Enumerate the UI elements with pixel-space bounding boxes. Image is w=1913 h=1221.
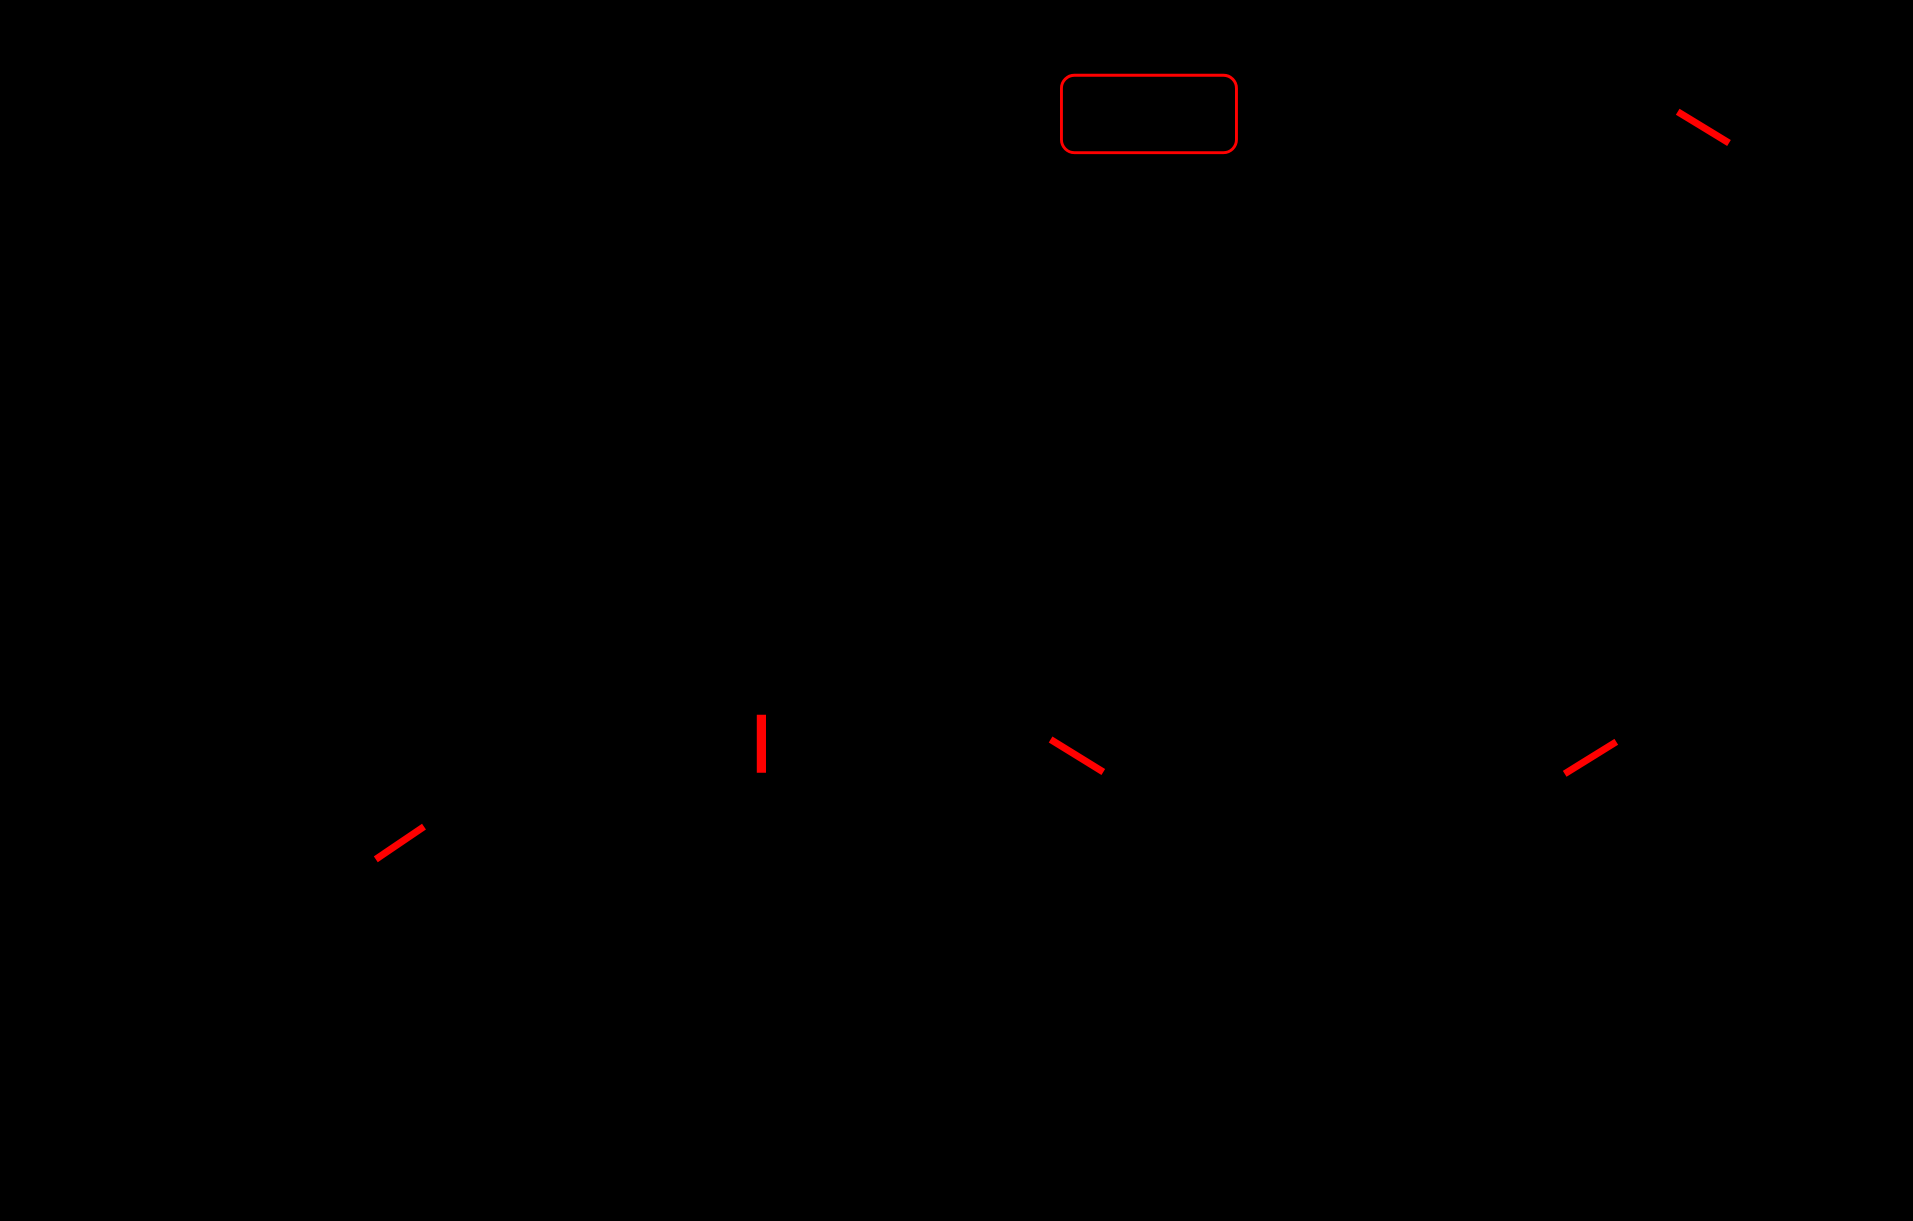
node A: red rounded highlight box around atom-group label, top centre bbox=[1061, 75, 1236, 152]
wire: highlighted bond B1, top right, sloping down to the right bbox=[1678, 112, 1729, 143]
wire: highlighted bond B2, vertical, mid left bbox=[757, 715, 766, 773]
wire: highlighted bond B3, mid centre, sloping down to the right bbox=[1051, 740, 1104, 773]
wire: highlighted bond B5, lower left, sloping up to the right bbox=[376, 827, 424, 860]
wire: highlighted bond B4, mid right, sloping up to the right bbox=[1565, 742, 1617, 774]
